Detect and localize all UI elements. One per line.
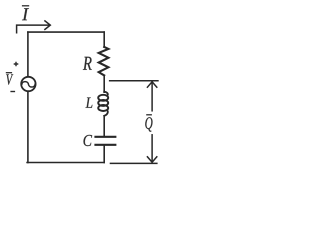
label L (inductor) [86, 98, 93, 108]
dimension extension line bottom [110, 162, 158, 164]
source V1 sine wave [22, 82, 35, 87]
wire: resistor to inductor [103, 75, 105, 92]
dimension arrow up head [147, 82, 156, 87]
label V (source voltage) [6, 74, 13, 84]
wire: top horizontal [28, 31, 104, 33]
dimension arrow up shaft [151, 83, 153, 111]
inductor L entry hook [104, 92, 108, 96]
resistor R zigzag [99, 47, 109, 76]
inductor L exit hook [104, 110, 108, 116]
wire: inductor to capacitor [103, 116, 105, 136]
capacitor C top plate [94, 136, 116, 138]
inductor L coil loop 3 [98, 105, 108, 111]
wire: capacitor to bottom wire [103, 146, 105, 163]
inductor L coil loop 1 [98, 95, 108, 101]
label I (current) [22, 8, 29, 20]
dimension extension line top (at R-L junction level) [109, 80, 159, 82]
current arrow I (bent shaft) [17, 25, 50, 33]
label Q overbar [146, 114, 152, 116]
label Q (charge) [145, 117, 152, 132]
dimension arrow down shaft [151, 135, 153, 162]
wire: left vertical lower (source bottom to bottom wire) [27, 92, 29, 163]
wire: left vertical upper (corner to source top) [27, 32, 29, 76]
capacitor C bottom plate [94, 144, 116, 146]
wire: right vertical upper (corner to resistor) [103, 32, 105, 47]
source plus sign [14, 62, 19, 67]
dimension arrow down head [147, 157, 156, 162]
source minus sign [10, 91, 15, 93]
wire: bottom horizontal [27, 162, 104, 164]
label V overbar [6, 72, 12, 74]
label C (capacitor) [84, 135, 93, 146]
inductor L coil loop 2 [98, 100, 108, 106]
label R (resistor) [83, 57, 92, 70]
source V1 circle (AC source) [21, 77, 35, 91]
label I overbar [22, 5, 29, 7]
current arrow I head [45, 21, 50, 30]
